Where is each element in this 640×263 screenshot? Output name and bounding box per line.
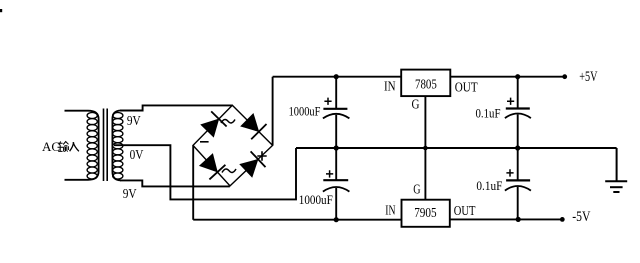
- svg-text:IN: IN: [384, 78, 396, 93]
- screen artifact mark top-left: [0, 9, 2, 12]
- negative rail left segment: [193, 219, 401, 221]
- capacitor C2 curved plate: [323, 187, 350, 192]
- svg-text:-5V: -5V: [572, 209, 590, 225]
- U2 ground pin wire: [424, 148, 426, 200]
- diode D2 (top to right): [241, 114, 266, 139]
- wire secondary bottom 9V to bridge bottom vertex: [120, 180, 230, 186]
- svg-text:0.1uF: 0.1uF: [476, 107, 501, 121]
- negative rail right segment (-5V): [450, 218, 563, 220]
- junction dot mid rail C1/C2: [334, 145, 339, 150]
- +5V rail right segment: [450, 76, 564, 78]
- junction dot mid rail G: [423, 146, 428, 151]
- capacitor C3 0.1uF top lead: [517, 77, 519, 109]
- U1 ground pin wire: [424, 96, 426, 148]
- junction dot negative rail C4: [516, 217, 521, 222]
- bridge AC tilde bottom: [222, 169, 236, 173]
- +5V rail left segment: [273, 76, 402, 78]
- svg-text:OUT: OUT: [454, 203, 476, 218]
- transformer core lines: [104, 109, 108, 182]
- capacitor C4 0.1uF top lead: [517, 148, 519, 180]
- capacitor C1 curved plate: [323, 114, 350, 119]
- svg-text:0.1uF: 0.1uF: [476, 179, 502, 193]
- capacitor C4 bottom lead: [517, 187, 519, 220]
- wire secondary top 9V to bridge top vertex: [120, 105, 232, 110]
- capacitor C2 flat plate: [323, 179, 348, 181]
- capacitor C2 1000uF top lead: [335, 148, 337, 180]
- capacitor C1 1000uF top lead: [335, 77, 337, 109]
- svg-text:0V: 0V: [130, 147, 144, 162]
- regulator U2 7905 box: [402, 200, 450, 227]
- terminal dot -5V: [560, 217, 565, 222]
- bridge rectifier diamond outline: [193, 105, 273, 186]
- svg-text:9V: 9V: [127, 113, 141, 128]
- mid rail (ground rail): [296, 147, 617, 149]
- capacitor C1 plus sign: [324, 98, 331, 105]
- capacitor C3 flat plate: [506, 107, 530, 109]
- hanzi shu (输) simplified strokes: [58, 141, 69, 151]
- svg-text:9V: 9V: [123, 186, 137, 201]
- capacitor C3 plus sign: [507, 98, 514, 105]
- diode D1 (left to top): [201, 111, 226, 136]
- capacitor C1 bottom lead: [335, 115, 337, 148]
- svg-text:IN: IN: [385, 203, 395, 218]
- ground symbol: [605, 148, 627, 192]
- svg-text:AC: AC: [42, 139, 60, 154]
- capacitor C2 plus sign: [326, 170, 333, 177]
- junction dot top rail C3: [515, 74, 520, 79]
- junction dot top rail C1: [334, 74, 339, 79]
- diode D3 (left to bottom): [200, 154, 226, 179]
- capacitor C4 flat plate: [506, 179, 530, 181]
- bridge plus sign: [257, 151, 266, 160]
- capacitor C4 plus sign: [506, 169, 513, 176]
- capacitor C3 bottom lead: [517, 115, 519, 149]
- diode D4 (bottom to right): [240, 151, 265, 176]
- transformer T1 secondary bus: [112, 111, 121, 181]
- bridge AC tilde top: [221, 119, 235, 123]
- junction dot mid rail C3/C4: [515, 145, 520, 150]
- capacitor C4 curved plate: [505, 186, 531, 191]
- capacitor C1 flat plate: [323, 108, 347, 110]
- wire 0V center tap jog around bridge to mid rail: [114, 145, 296, 199]
- svg-text:G: G: [412, 97, 420, 112]
- svg-text:+5V: +5V: [579, 69, 597, 85]
- svg-text:1000uF: 1000uF: [289, 105, 321, 119]
- svg-text:1000uF: 1000uF: [299, 193, 333, 207]
- wire bridge plus output up to +5V rail: [272, 77, 274, 146]
- transformer T1 secondary winding loops: [113, 113, 123, 180]
- transformer T1 primary lead/bus: [65, 111, 99, 180]
- regulator U1 7805 box: [401, 70, 450, 97]
- wire bridge minus output down to negative rail: [192, 146, 194, 220]
- svg-text:7905: 7905: [414, 206, 436, 221]
- terminal dot +5V: [562, 74, 567, 79]
- label AC input: [42, 139, 79, 154]
- bridge minus sign: [200, 141, 209, 143]
- capacitor C2 bottom lead: [335, 188, 337, 220]
- transformer T1 primary winding loops: [87, 113, 97, 180]
- hanzi ru (入) simplified strokes: [70, 142, 79, 151]
- svg-text:OUT: OUT: [455, 80, 478, 95]
- svg-text:G: G: [413, 182, 420, 197]
- svg-text:7805: 7805: [415, 77, 437, 92]
- capacitor C3 curved plate: [505, 114, 531, 119]
- junction dot negative rail C2: [334, 217, 339, 222]
